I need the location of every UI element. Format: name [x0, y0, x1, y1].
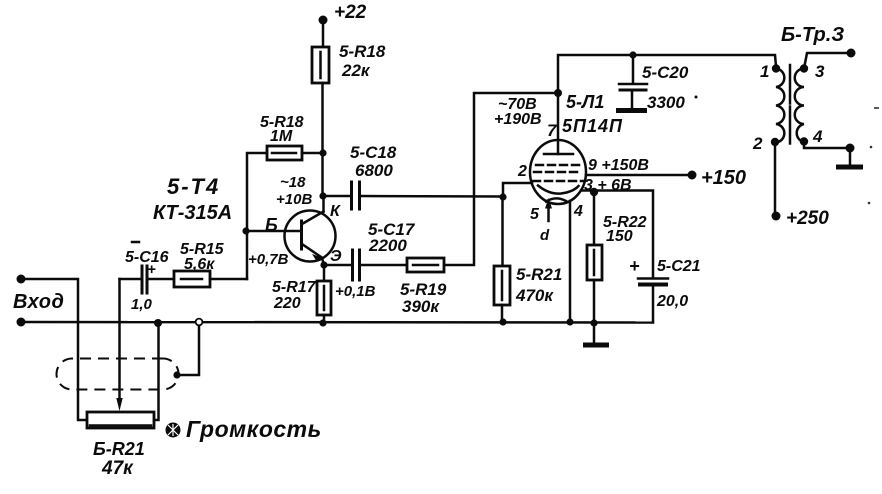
wire shield to rail	[177, 322, 199, 375]
speck	[874, 107, 879, 109]
svg-text:+150: +150	[701, 167, 746, 189]
svg-text:+22: +22	[334, 2, 367, 23]
transistor 5-T4 KT-315A	[285, 211, 336, 262]
capacitor 5-C17 2200	[324, 264, 352, 267]
wire +22 to R18	[322, 20, 325, 47]
grids dashed	[536, 164, 580, 167]
core	[789, 65, 792, 144]
svg-text:5-R21: 5-R21	[516, 265, 562, 284]
input terminal bottom	[17, 318, 26, 327]
wire R18 to collector node	[321, 83, 324, 196]
node rail-pot junction	[154, 319, 162, 327]
svg-text:5-R18: 5-R18	[339, 42, 386, 61]
svg-text:+: +	[629, 256, 640, 276]
wire grid node to tube pin2	[503, 183, 532, 197]
svg-text:+: +	[147, 261, 156, 278]
svg-text:5-С21: 5-С21	[657, 258, 701, 275]
svg-text:5,6к: 5,6к	[184, 256, 215, 273]
wire base	[246, 230, 300, 233]
svg-text:2: 2	[752, 134, 763, 153]
wire C18 to grid node	[360, 195, 503, 198]
anode	[544, 153, 573, 156]
node anode junction	[554, 89, 562, 97]
capacitor 5-C21 20,0	[638, 277, 668, 280]
wire tube pin9 to +150	[586, 174, 692, 177]
svg-text:~18: ~18	[280, 174, 306, 191]
speck	[870, 146, 873, 149]
svg-text:5-Л1: 5-Л1	[566, 92, 604, 112]
svg-text:d: d	[540, 227, 550, 244]
svg-text:+10В: +10В	[276, 191, 312, 208]
svg-text:+0,1В: +0,1В	[335, 283, 376, 300]
node emitter junction	[320, 261, 327, 268]
primary winding	[776, 69, 784, 143]
svg-text:3: 3	[815, 62, 825, 81]
node shield tap	[173, 371, 180, 378]
cathode	[538, 186, 579, 194]
svg-text:Вход: Вход	[13, 291, 64, 313]
wire feedback R19 to anode node	[444, 93, 558, 265]
svg-text:7: 7	[547, 121, 558, 140]
svg-text:22к: 22к	[341, 61, 371, 80]
node junction R18-1M	[319, 149, 326, 156]
resistor 5-R22 150	[593, 192, 596, 245]
ground rail wire	[21, 321, 653, 324]
potentiometer B-R21 47k	[87, 412, 154, 428]
node +22 terminal	[319, 16, 328, 25]
svg-text:К: К	[330, 203, 341, 220]
speck	[868, 202, 871, 205]
node base junction	[242, 227, 249, 234]
capacitor 5-C16 1,0	[141, 266, 144, 293]
node collector junction	[319, 192, 326, 199]
svg-text:4: 4	[812, 127, 823, 146]
input terminal top	[17, 275, 26, 284]
resistor 5-R18 22k	[312, 47, 329, 83]
capacitor 5-C20 3300	[629, 51, 636, 58]
svg-text:1М: 1М	[270, 128, 293, 145]
resistor 5-R18 1M	[267, 146, 302, 160]
svg-text:9 +150В: 9 +150В	[588, 157, 649, 174]
tube 5-L1 5P14P	[530, 140, 586, 204]
wire tube pin3 cathode line	[581, 191, 653, 279]
svg-text:+190В: +190В	[494, 111, 542, 128]
svg-text:1,0: 1,0	[131, 296, 153, 313]
ground symbol main	[593, 323, 596, 343]
volume knob symbol	[166, 423, 181, 438]
rail junction under R17	[319, 319, 326, 326]
svg-text:5-С18: 5-С18	[350, 143, 397, 162]
svg-text:47к: 47к	[101, 458, 134, 479]
svg-text:2200: 2200	[368, 236, 407, 255]
svg-text:2: 2	[517, 163, 527, 180]
shield screen dashed	[56, 359, 178, 390]
svg-text:Громкость: Громкость	[186, 416, 322, 442]
node grid junction	[499, 193, 506, 200]
speck	[695, 96, 698, 99]
transformer pins	[772, 64, 780, 72]
svg-text:Б-R21: Б-R21	[93, 439, 145, 459]
svg-text:150: 150	[606, 228, 633, 245]
svg-text:Э: Э	[330, 248, 342, 265]
pin 4 wire	[569, 201, 572, 322]
wire anode to transformer	[558, 55, 776, 93]
svg-text:5: 5	[530, 206, 540, 223]
svg-text:+250: +250	[786, 208, 829, 229]
svg-text:470к: 470к	[515, 286, 554, 305]
resistor 5-R19 390k	[360, 264, 407, 267]
svg-text:1: 1	[760, 62, 769, 81]
svg-text:5-R17: 5-R17	[272, 279, 317, 296]
svg-text:220: 220	[273, 295, 301, 312]
svg-text:6800: 6800	[355, 161, 393, 180]
capacitor 5-C18 6800	[323, 195, 351, 198]
wire primary bottom to +250	[774, 142, 777, 216]
wire 1M leads	[247, 153, 267, 279]
svg-text:5-С20: 5-С20	[642, 63, 689, 82]
svg-text:КТ-315А: КТ-315А	[153, 202, 232, 224]
wiper arrow	[118, 279, 121, 399]
svg-text:4: 4	[573, 203, 583, 220]
node rail feedthrough	[196, 319, 203, 326]
svg-text:5-Т4: 5-Т4	[167, 174, 220, 199]
resistor 5-R21 470k	[501, 197, 504, 266]
svg-text:20,0: 20,0	[656, 293, 688, 310]
svg-text:Б-Тр.З: Б-Тр.З	[781, 24, 844, 46]
wire secondary bottom out	[804, 142, 850, 149]
resistor 5-R17 220	[323, 265, 326, 281]
wire input top to pot	[21, 279, 87, 420]
wire secondary top out	[804, 53, 851, 69]
resistor 5-R15 5,6k	[174, 271, 210, 287]
svg-text:5П14П: 5П14П	[562, 116, 623, 136]
svg-text:390к: 390к	[402, 297, 440, 316]
ground secondary	[849, 148, 852, 165]
svg-text:+0,7В: +0,7В	[248, 251, 289, 268]
secondary winding	[795, 69, 804, 143]
svg-text:3300: 3300	[647, 93, 685, 112]
pin 5 arrow	[547, 208, 550, 221]
